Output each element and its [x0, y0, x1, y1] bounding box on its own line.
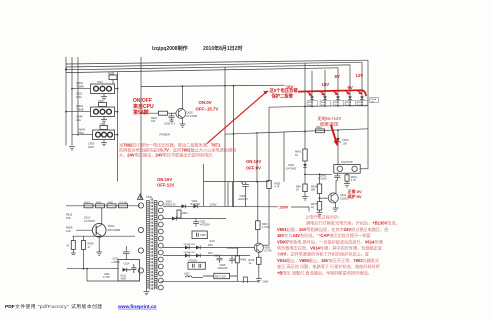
svg-text:130V: 130V [210, 202, 217, 206]
wire horizontal y268.7 [67, 268, 119, 270]
svg-text:lzqipq2008制作: lzqipq2008制作 [152, 45, 188, 52]
red label 150V [279, 205, 289, 210]
svg-text:7601: 7601 [97, 80, 103, 84]
secondary wire y218.5 [163, 218, 226, 220]
svg-text:R617 220: R617 220 [215, 276, 226, 279]
resistor R679 + ground [311, 198, 323, 216]
wire opto3 left [72, 134, 93, 136]
transformer T601 left pins [138, 203, 143, 273]
svg-text:R643: R643 [316, 126, 322, 129]
svg-text:2200u/25: 2200u/25 [218, 267, 229, 270]
svg-text:1K: 1K [295, 154, 298, 157]
svg-text:+100u/35: +100u/35 [238, 198, 249, 201]
svg-text:PDF: PDF [5, 304, 15, 310]
svg-text:1K: 1K [249, 262, 252, 265]
ground under opto 7602 [101, 117, 107, 123]
svg-text:R607: R607 [85, 202, 91, 204]
voltage label 9V [348, 85, 353, 90]
red arrow diagonal to protection diodes [207, 91, 269, 144]
svg-text:470u: 470u [76, 95, 82, 99]
secondary wire y247.5 [163, 247, 254, 249]
svg-text:785U: 785U [78, 131, 84, 135]
wire opto1 right [115, 88, 119, 90]
svg-text:+470/50V: +470/50V [200, 224, 211, 227]
svg-text:R613: R613 [182, 212, 188, 215]
svg-text:为0V，这样电源源的待机了开机的保护状态上，变: 为0V，这样电源源的待机了开机的保护状态上，变 [277, 251, 369, 257]
svg-text:470/50V: 470/50V [189, 261, 198, 263]
svg-text:将负载电压拉低，V614导通，其中的压导通，负载稳定变: 将负载电压拉低，V614导通，其中的压导通，负载稳定变 [277, 245, 382, 251]
svg-text:SW04: SW04 [78, 128, 86, 132]
wire opto2 right [115, 111, 119, 113]
svg-text:R611: R611 [108, 72, 114, 75]
rail 130V y206.4 [163, 205, 278, 208]
capacitor C652 [193, 219, 210, 227]
svg-text:10K: 10K [66, 216, 71, 220]
annotation ON/OFF from CPU pin54 [132, 98, 154, 116]
optocoupler 7603 [93, 130, 115, 140]
svg-text:KA7045Z: KA7045Z [286, 167, 297, 170]
diode D601 [165, 200, 186, 208]
label 26V lower [208, 251, 213, 255]
diode V603 [191, 200, 201, 208]
box C650 [192, 231, 207, 239]
svg-text:7660B: 7660B [76, 107, 84, 111]
svg-text:V601起振，24V等相继出现，在其中24V经过稳压电路后，: V601起振，24V等相继出现，在其中24V经过稳压电路后，经 [277, 226, 388, 232]
svg-text:V614截止，V606截止，16V电压不正常，7602光耦发: V614截止，V606截止，16V电压不正常，7602光耦发光 [277, 257, 379, 263]
svg-text:保护:5V: 保护:5V [347, 193, 363, 199]
voltage label 18V [322, 82, 330, 87]
wire vertical x228 [227, 182, 229, 207]
diode V602 on y218.5 [172, 217, 176, 221]
svg-text:校测:有压: 校测:有压 [320, 120, 339, 127]
svg-text:12K: 12K [66, 229, 71, 233]
svg-text:15V: 15V [371, 101, 375, 103]
label C648 2.2u [76, 115, 83, 122]
secondary wire y255.5 [163, 255, 250, 257]
svg-text:T601: T601 [146, 195, 153, 199]
zener D613 15V [335, 130, 349, 164]
wire vertical x203.5 [203, 164, 205, 206]
red arrow a4 [346, 91, 351, 95]
capacitor C641 under IC [318, 173, 340, 180]
resistor R615 [256, 182, 271, 230]
label JR61 4.7/50 [103, 273, 110, 279]
transistor V601 2SC2668 [92, 223, 120, 237]
svg-text:V605B PKD: V605B PKD [184, 252, 196, 254]
transistor V614 [328, 193, 348, 203]
wire vertical x257 (24V line) [256, 134, 258, 182]
wire vertical x305 top [304, 63, 306, 149]
transformer T601 primary winding [147, 201, 150, 290]
svg-text:1K: 1K [311, 206, 314, 209]
annotation normal/protect voltages [347, 188, 363, 199]
wire horizontal y236.2 [73, 235, 136, 237]
svg-text:18V: 18V [322, 82, 330, 87]
diode D607 with feed wire [334, 68, 340, 107]
svg-text:上电开机过程分析：: 上电开机过程分析： [305, 214, 342, 220]
svg-text:C1740: C1740 [265, 250, 273, 253]
ground under opto 7601 [101, 94, 107, 100]
wire horizontal y181.6 [204, 181, 270, 183]
annotation these 5 voltage protection diodes [270, 87, 299, 99]
svg-text:ERA91-02: ERA91-02 [165, 203, 177, 206]
voltage label 8V [335, 74, 340, 79]
svg-text:7603: 7603 [100, 123, 106, 126]
svg-text:C664: C664 [263, 281, 269, 284]
svg-text:变压 高压的 问题，电路等于 行保护状态，维修开机时将: 变压 高压的 问题，电路等于 行保护状态，维修开机时将 [277, 263, 380, 269]
diode D609 with feed wire [358, 62, 364, 107]
wire horizontal y86 [141, 85, 285, 87]
inductor L602 [184, 273, 203, 278]
wire vertical x233.5 [233, 86, 235, 207]
wire V614 emitter + ground [333, 203, 339, 212]
wire opto2 left [65, 111, 90, 113]
red arrow a2 [321, 91, 326, 95]
svg-text:2.7K: 2.7K [351, 179, 356, 182]
wire left vertical V3 [77, 57, 79, 136]
svg-text:通电后行灯瞬发光电升高，开机后，+B130V形成，: 通电后行灯瞬发光电升高，开机后，+B130V形成， [306, 220, 400, 226]
label C601 470u [76, 92, 83, 99]
svg-text:V614: V614 [340, 193, 347, 197]
svg-text:7608R: 7608R [76, 84, 84, 88]
label SW02 7608R [76, 81, 84, 88]
wire vertical x141 [140, 57, 142, 200]
label 130V [210, 202, 217, 206]
svg-text:POWER: POWER [160, 132, 170, 136]
svg-text:26V: 26V [208, 243, 213, 247]
wire 150V segment [291, 207, 309, 212]
capacitor C605 [164, 113, 175, 125]
bottom wire left [87, 269, 140, 281]
transformer T601 secondary pins [158, 201, 163, 290]
capacitor C667 [229, 256, 235, 264]
svg-text:SW02: SW02 [76, 81, 84, 85]
svg-text:16V: 16V [286, 85, 294, 90]
svg-text:R666: R666 [241, 258, 247, 261]
transformer T601 secondary winding [154, 201, 157, 290]
resistor R618 + ground [249, 252, 269, 283]
resistor R666 [235, 248, 247, 282]
svg-text:+B降压 调整灯 直流输出，早期判断是否损坏原因。: +B降压 调整灯 直流输出，早期判断是否损坏原因。 [277, 269, 372, 275]
wire Q602 collector [182, 85, 184, 109]
label SW04 785U [78, 128, 86, 135]
label C612 LC470UH [84, 217, 95, 223]
rail under protection diodes [269, 105, 368, 107]
svg-text:2200: 2200 [88, 145, 94, 149]
wire vertical x368 right edge [367, 60, 369, 169]
svg-text:OFF:12V: OFF:12V [157, 183, 174, 188]
svg-text:正常:0V: 正常:0V [348, 188, 363, 194]
label C658 [227, 247, 239, 250]
bus wire B3 [66, 65, 350, 70]
annotation ON16V OFF0V [246, 159, 261, 171]
label SW02 7660B [76, 104, 84, 111]
IC KIA7045 [334, 160, 360, 173]
svg-text:V5007导致电.损坏后，一旦保护被波动态启升，V614导通: V5007导致电.损坏后，一旦保护被波动态启升，V614导通 [277, 238, 383, 244]
svg-text:4.7K: 4.7K [275, 186, 280, 189]
svg-text:2SC2668: 2SC2668 [108, 228, 121, 232]
capacitor C613 [111, 246, 130, 264]
red arrow a3 [334, 91, 339, 95]
svg-text:的阴极对地短路时由压0.7V，此时7602截止大人以来电源面: 的阴极对地短路时由压0.7V，此时7602截止大人以来电源面通电 [119, 147, 236, 153]
bus wire B2 [66, 62, 362, 67]
resistor R644 under IC + ground [344, 173, 357, 187]
annotation Nc+12V [317, 115, 342, 127]
svg-text:150V: 150V [279, 205, 289, 210]
svg-text:10K: 10K [151, 120, 156, 123]
svg-text:保护二极管: 保护二极管 [271, 93, 294, 100]
svg-text:C650: C650 [200, 234, 206, 237]
label T601 [146, 195, 153, 199]
resistor R617 220 [203, 273, 237, 278]
red arrow a1 [308, 92, 313, 96]
transformer T601 core [151, 199, 152, 291]
bus wire B1 [66, 60, 368, 64]
svg-text:大，24V电压输出，24V电压不能输出仍是待机电压.: 大，24V电压输出，24V电压不能输出仍是待机电压. [119, 152, 214, 158]
wire V601 emitter + ground [96, 237, 102, 256]
wire V601 base [76, 229, 92, 231]
wire opto3 right [115, 134, 119, 136]
warning triangle [137, 194, 143, 199]
red bus with hook [298, 90, 366, 96]
svg-text:D60A: D60A [371, 98, 377, 101]
diodes V605B V605D [184, 252, 201, 258]
svg-text:T5.1.3A: T5.1.3A [119, 201, 127, 204]
diode V605 KA7045 [286, 161, 307, 174]
svg-text:220R: 220R [108, 202, 114, 204]
label 26V upper [208, 243, 213, 247]
annotation ON 0V OFF -15.7V [196, 100, 219, 112]
svg-text:KIA7045: KIA7045 [341, 160, 353, 164]
lower rail left y205.8 [66, 205, 140, 207]
box C655 [188, 261, 205, 270]
wire vertical x225 [224, 67, 226, 206]
red thick arrow to zener [331, 125, 339, 146]
wire V601 collector [101, 208, 103, 225]
svg-text:当7602的②脚为一电压比较器，推动二极管发通，7671: 当7602的②脚为一电压比较器，推动二极管发通，7671 [119, 141, 221, 147]
label Q610 [66, 213, 73, 220]
label 24V [210, 239, 215, 243]
svg-text:4.7/2W: 4.7/2W [262, 226, 270, 229]
diode D606 with feed wire [321, 70, 327, 107]
capacitor C660 [214, 254, 223, 263]
resistor R612 above opto 7602 [98, 100, 107, 107]
resistor R604 (Q602 base) [140, 111, 167, 123]
svg-text:V604B PKD: V604B PKD [184, 244, 196, 246]
bottom wire right [161, 280, 259, 282]
svg-text:15V: 15V [343, 142, 348, 146]
svg-text:C660: C660 [214, 254, 220, 257]
ground under transformer [144, 290, 150, 295]
svg-text:KTC3199: KTC3199 [187, 115, 198, 118]
svg-text:来自CPU: 来自CPU [132, 103, 154, 110]
red annotation paragraph 1 [119, 141, 236, 157]
svg-text:4148: 4148 [121, 277, 127, 280]
wire V614 collector [336, 180, 337, 193]
resistor above opto 7603 [100, 123, 108, 130]
svg-text:第54脚: 第54脚 [133, 109, 149, 116]
resistor R611 above opto 7601 [108, 72, 117, 84]
annotation ON16V OFF12V [157, 177, 174, 188]
diode D605 with feed wire [308, 71, 314, 107]
wire Q602 emitter + ground [180, 118, 186, 128]
svg-text:1K: 1K [296, 189, 299, 192]
svg-text:16V先与24V合形成，"7CAP电压比较才稳不一样管: 16V先与24V合形成，"7CAP电压比较才稳不一样管 [277, 232, 371, 238]
resistor R678 [311, 173, 322, 193]
svg-text:+470/50: +470/50 [111, 261, 120, 264]
wire opto1 left [71, 88, 90, 90]
svg-text:OFF:0V: OFF:0V [246, 166, 261, 171]
red arrow a5 [358, 91, 363, 95]
resistor row R607 R608 R609 R610 [84, 201, 128, 208]
svg-text:C614: C614 [124, 263, 130, 266]
snubber box D611 [118, 260, 140, 281]
svg-text:4.7/50: 4.7/50 [103, 276, 110, 279]
diodes V604B V604D [184, 244, 201, 250]
svg-text:680: 680 [311, 189, 316, 192]
label R606 12K [66, 226, 73, 233]
svg-text:C601: C601 [76, 92, 83, 96]
svg-text:L602: L602 [184, 273, 190, 276]
svg-text:R608: R608 [96, 202, 102, 204]
voltage label 16V [286, 85, 294, 90]
svg-text:7626: 7626 [98, 100, 104, 103]
wire horizontal y174.3 [304, 173, 332, 175]
wire R604 to Q602 [168, 112, 177, 114]
resistor R642 + ground [296, 174, 308, 200]
svg-text:ON:16V: ON:16V [157, 177, 172, 182]
svg-text:C605 473: C605 473 [164, 123, 175, 126]
ground under V2 [69, 147, 75, 151]
svg-text:C648: C648 [76, 115, 83, 119]
svg-text:8V: 8V [335, 74, 340, 79]
resistor R641 [295, 149, 307, 161]
red annotation paragraph 2 (power-on sequence) [277, 214, 400, 276]
title text [152, 45, 242, 52]
wire vertical feed node F (x117.5) [117, 72, 119, 181]
wire horizontal y131.8 with resistor R643 [225, 126, 368, 135]
wire vertical x232.5 [232, 182, 234, 207]
wire V606 collector up [263, 244, 270, 246]
resistor Rx 47 [67, 236, 76, 254]
voltage label 12V [356, 73, 364, 78]
svg-text:ON:0V: ON:0V [199, 100, 212, 105]
svg-text:LC470UH: LC470UH [84, 220, 95, 223]
transistor Q602 [176, 109, 198, 119]
svg-text:ON:16V: ON:16V [246, 159, 261, 164]
svg-text:2010年8月1日2时: 2010年8月1日2时 [203, 45, 242, 52]
wire IC right pin to x368 [360, 168, 368, 170]
svg-text:文件使用 "pdfFactory" 试用版本创建: 文件使用 "pdfFactory" 试用版本创建 [15, 303, 103, 310]
svg-text:RGP10G: RGP10G [191, 203, 201, 206]
label C603 2200 [88, 142, 95, 149]
bus wire B4 [66, 68, 338, 73]
wire V614 base [319, 194, 329, 200]
wire left vertical V2 [71, 57, 73, 146]
svg-text:26V: 26V [208, 251, 213, 255]
optocoupler 7601 [91, 80, 115, 94]
svg-text:2.2u: 2.2u [76, 118, 82, 122]
capacitor C606 [238, 182, 249, 207]
label POWER [160, 132, 170, 136]
diode D608 with feed wire [346, 65, 352, 107]
wire vertical x284 [283, 132, 285, 182]
wire vertical x269 [267, 107, 281, 245]
label C666 2200u/25 [218, 264, 229, 270]
resistor R613 [177, 210, 188, 218]
diode label boxes [307, 97, 378, 106]
resistor R605 47 [82, 236, 95, 269]
optocoupler 7602 [91, 107, 115, 117]
svg-text:C603: C603 [88, 142, 95, 146]
wire left vertical V1 [65, 57, 67, 146]
ground under opto 7603 [101, 140, 107, 146]
svg-text:SW02: SW02 [76, 104, 84, 108]
svg-text:www.fineprint.cn: www.fineprint.cn [117, 304, 157, 310]
footer watermark [5, 303, 157, 310]
svg-text:D613: D613 [343, 138, 350, 142]
transistor V606 [254, 230, 272, 253]
svg-text:OFF:-15.7V: OFF:-15.7V [196, 107, 219, 112]
fuse symbol [243, 277, 247, 283]
